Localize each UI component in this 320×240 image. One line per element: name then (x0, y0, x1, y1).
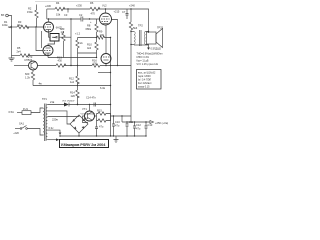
svg-text:0.5A: 0.5A (9, 110, 15, 114)
wire cathode to box (49, 32, 51, 37)
svg-text:220в: 220в (52, 118, 58, 122)
svg-text:+1.2: +1.2 (75, 32, 81, 36)
resistor 600/1.2k (VT3 source) (25, 70, 35, 86)
triode VL1.2 (lower SRPP) (43, 46, 53, 58)
svg-text:470: 470 (91, 12, 96, 16)
svg-text:430: 430 (58, 59, 63, 63)
resistor R9 100 (horizontal to cathode column) (97, 30, 111, 40)
resistor R12 1k2 (x77.5 chain upper) (69, 53, 79, 90)
wire junction down to lower triode grid (36, 27, 43, 51)
triode VL1.1 (upper SRPP) (44, 19, 63, 32)
svg-text:C12: C12 (136, 123, 141, 127)
wire bridge bottom to ground rail (78, 133, 80, 136)
capacitor C12 47u (133, 121, 141, 136)
wire x122 stub (121, 116, 123, 122)
wire box tap to x71 vertical (59, 18, 72, 65)
svg-text:+250 (+Ua): +250 (+Ua) (155, 121, 168, 125)
resistor R13 430 on ground row (38, 56, 93, 68)
wire cathode bus H1 (48, 57, 97, 58)
input jack X1 (1, 13, 8, 17)
resistor R3 51k (grid stopper) (12, 20, 44, 29)
resistor R16 130 on ground row (92, 59, 131, 68)
wire +250 output with arrow (122, 121, 168, 126)
spec box (OPT winding data) (137, 70, 162, 90)
wire grid into VL2 (99, 18, 102, 20)
svg-text:+230: +230 (76, 4, 82, 8)
node speaker top (148, 31, 149, 32)
svg-text:КП504: КП504 (25, 58, 33, 62)
speaker BA1 (147, 26, 164, 48)
svg-text:FU1: FU1 (23, 107, 28, 111)
chassis ground mark (114, 136, 119, 143)
svg-text:100к: 100к (2, 23, 8, 27)
title box (60, 140, 109, 148)
wire PSU ground rail (59, 135, 146, 136)
resistor R2 150k (vertical, upper left) (27, 5, 38, 28)
svg-text:6.3v: 6.3v (49, 126, 55, 130)
wire box to lower triode anode (48, 41, 55, 46)
svg-text:+215: +215 (114, 10, 120, 14)
svg-text:4к3: 4к3 (87, 46, 92, 50)
svg-text:ЧХ= 1.2Гц грюч 14с: ЧХ= 1.2Гц грюч 14с (137, 63, 159, 66)
svg-text:C10: C10 (115, 120, 120, 124)
svg-text:ТР1: ТР1 (42, 97, 47, 101)
wire VT1 to HV line (89, 105, 91, 112)
svg-text:VL2: VL2 (102, 4, 107, 8)
wire rail middle (63, 8, 90, 10)
capacitor C10 47u (112, 115, 120, 136)
svg-text:47u: 47u (115, 124, 120, 128)
svg-text:R12: R12 (69, 77, 74, 81)
resistor 680 1w (cathode load) (60, 27, 65, 58)
resistor 5k6 on B+ riser x131 (129, 9, 137, 122)
svg-text:120: 120 (71, 94, 76, 98)
svg-text:С2: С2 (79, 13, 83, 17)
svg-text:100: 100 (100, 33, 105, 37)
svg-text:R15: R15 (97, 109, 102, 113)
wire SRPP midpoint link (41, 31, 43, 48)
wire VT3 base (14, 65, 29, 67)
svg-text:2к4: 2к4 (17, 50, 22, 54)
svg-text:C7: C7 (122, 10, 126, 14)
wire screen grid +215 (112, 10, 120, 66)
svg-text:ГР25: ГР25 (157, 26, 164, 30)
wire pot bottom down to ground (11, 31, 13, 56)
resistor R14 120 (x77.5 chain lower) (70, 90, 79, 105)
spec text lines (137, 53, 163, 67)
nodes on ground row (77, 65, 118, 66)
svg-text:47u: 47u (136, 127, 141, 131)
wire lamp to ground row (105, 64, 107, 66)
resistor 2k (bias divider upper) (76, 38, 84, 54)
resistor R4 15k (rail dropper) (55, 1, 65, 17)
wire x110.5 vertical (110, 38, 112, 137)
svg-text:C13: C13 (148, 123, 153, 127)
transistor VT1 (regulator) (82, 107, 95, 121)
svg-text:21в: 21в (50, 100, 55, 104)
svg-text:1.2k: 1.2k (25, 76, 31, 80)
wire winding taps to bridge (47, 111, 79, 124)
LED box D1 (bias element between triodes) (50, 34, 59, 42)
svg-text:+230: +230 (45, 4, 51, 8)
resistor pair R15 (VT1 output) (95, 109, 111, 123)
wire bias node y37.5 (75, 32, 97, 39)
svg-text:R4: R4 (56, 1, 60, 5)
pentode VL2 (output tube) (100, 4, 112, 54)
transistor VT3 (bias servo) (25, 55, 38, 70)
svg-text:ВХ: ВХ (1, 13, 5, 17)
svg-text:R10: R10 (87, 43, 92, 47)
node rail junction with C3 stub (64, 4, 82, 18)
wire y116 to riser (111, 115, 132, 116)
wire B+ rail start +230 (45, 4, 55, 19)
capacitor 47u below VT1 (95, 121, 104, 137)
svg-text:-4в: -4в (38, 82, 42, 86)
potentiometer R1 100k (volume) (2, 20, 12, 31)
fuse FU1 0.5A (9, 107, 32, 115)
node grid junction (35, 26, 36, 27)
svg-text:VD5 1N4007: VD5 1N4007 (62, 101, 75, 103)
switch SA1 (13, 122, 27, 136)
svg-text:150к: 150к (27, 10, 33, 14)
resistor R6 470 (rail dropper 2) (90, 1, 100, 16)
capacitor C13 (145, 121, 153, 136)
transformer TR1 (mains) (42, 97, 47, 141)
svg-text:1w: 1w (61, 30, 64, 34)
lamp EL1 (cathode bias) (101, 54, 111, 64)
diode VD5 1N4007 (62, 101, 75, 107)
capacitor C2 (coupling) (47, 13, 100, 22)
svg-text:15k: 15k (56, 13, 61, 17)
svg-text:47u: 47u (99, 125, 104, 129)
svg-text:У.Макаров PSRV 2м 2004: У.Макаров PSRV 2м 2004 (61, 142, 107, 147)
resistor R8 680k (grid leak) (86, 19, 99, 42)
wire HV winding top tap 21v (47, 100, 64, 104)
svg-text:680к: 680к (86, 27, 92, 31)
wire stub y72.5 (98, 72, 111, 73)
capacitor C7 (rail decoupling) (122, 9, 129, 19)
svg-text:R5: R5 (17, 46, 21, 50)
ground (input) (9, 56, 15, 62)
resistor R10 4k3 (bias divider lower) (87, 42, 98, 58)
wire bias rail y85.5 (33, 82, 111, 91)
node anode tap (48, 18, 49, 19)
svg-text:VT1: VT1 (82, 107, 87, 111)
transformer TR2 (output) (130, 24, 148, 47)
svg-text:зазор 0.15: зазор 0.15 (138, 85, 150, 88)
svg-text:0.5ГДШ2: 0.5ГДШ2 (151, 47, 162, 51)
svg-text:6.3в: 6.3в (100, 86, 106, 90)
svg-text:R6: R6 (90, 1, 94, 5)
wire input jack to volume pot (8, 16, 11, 23)
resistor R5 2k4 (lower cathode wire) (12, 46, 49, 57)
wire bias cluster bottom (78, 52, 97, 54)
svg-text:C14 47п: C14 47п (86, 96, 96, 100)
svg-text:SA1: SA1 (19, 122, 24, 126)
svg-text:R8: R8 (87, 24, 91, 28)
svg-text:600: 600 (25, 72, 30, 76)
svg-text:ТР2: ТР2 (138, 24, 143, 28)
capacitor C11 (126, 120, 134, 136)
heater winding taps 6.3v (47, 126, 61, 141)
svg-text:1к2: 1к2 (70, 80, 75, 84)
svg-text:R14: R14 (70, 91, 75, 95)
svg-text:~220: ~220 (13, 131, 19, 135)
bridge rectifier VD1-4 (70, 114, 96, 134)
wire HV line y104.5 (69, 104, 111, 105)
svg-text:130: 130 (93, 61, 98, 65)
svg-text:С3: С3 (64, 13, 68, 17)
svg-text:R2: R2 (28, 7, 32, 11)
wire rail to OPT corner (98, 3, 149, 33)
ground arrow under speaker (134, 44, 161, 51)
capacitor C14 47n (series marks on HV line) (86, 96, 96, 107)
wire VT1 gate loop with zener (83, 116, 89, 123)
node coupling junction (89, 18, 92, 24)
svg-text:+240: +240 (129, 3, 135, 7)
wire primary stubs (28, 108, 44, 135)
